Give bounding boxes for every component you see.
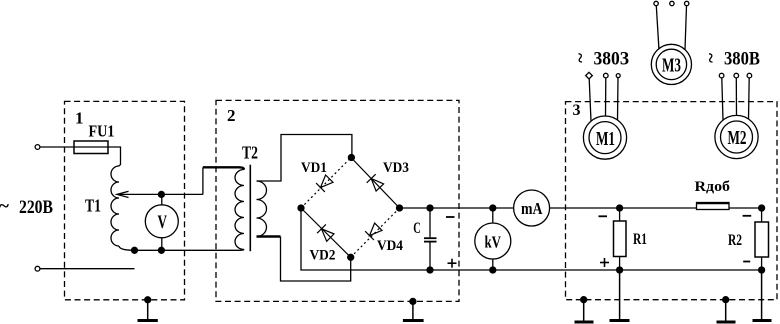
- terminal M1 left (diamond): [586, 72, 593, 79]
- svg-text:380В: 380В: [724, 48, 760, 69]
- svg-text:M2: M2: [728, 127, 747, 149]
- resistor R1: [614, 221, 627, 257]
- wire R1 to ground: [619, 270, 621, 320]
- wire kV top stub: [492, 208, 494, 223]
- wire tap to T2 jog: [117, 193, 203, 195]
- node junction dot box2 ground: [410, 298, 416, 304]
- wire T1 bottom to T2 primary bottom: [135, 249, 245, 252]
- node junction dot tap/voltmeter: [158, 191, 164, 197]
- block box 2 (dashed enclosure): [216, 100, 459, 301]
- svg-text:V: V: [158, 212, 168, 233]
- node bridge top: [348, 155, 354, 161]
- svg-text:kV: kV: [485, 233, 502, 252]
- node junction dot box3 ground left: [581, 297, 587, 303]
- terminal M2 middle: [734, 73, 739, 78]
- svg-text:C: C: [413, 220, 421, 237]
- tap arrow on T1: [117, 191, 129, 197]
- svg-text:~: ~: [569, 53, 590, 63]
- transformer T2 primary winding: [235, 170, 244, 250]
- ground below R1: [610, 319, 630, 322]
- svg-text:mA: mA: [521, 199, 543, 218]
- fuse FU1: [74, 141, 108, 154]
- label minus (top rail near C): [446, 216, 455, 218]
- svg-text:FU1: FU1: [89, 122, 115, 141]
- node junction dot box1 ground: [145, 297, 151, 303]
- transformer T2 secondary winding: [257, 181, 267, 237]
- ground below box 1: [147, 300, 149, 320]
- capacitor C: [429, 208, 431, 237]
- motor M2: [715, 115, 758, 158]
- svg-text:1: 1: [75, 109, 84, 128]
- wire terminal to fuse: [40, 146, 74, 148]
- svg-text:M3: M3: [662, 55, 681, 77]
- label minus (R2 top): [743, 215, 752, 217]
- svg-text:T1: T1: [85, 196, 101, 216]
- diode VD3: [367, 174, 384, 191]
- wire kV bottom stub: [492, 259, 494, 270]
- svg-text:VD3: VD3: [383, 160, 409, 176]
- wire fuse to T1 top: [108, 147, 121, 166]
- terminal M1 middle: [604, 73, 609, 78]
- motor M1: [583, 116, 626, 159]
- ground below box 3 right: [725, 300, 727, 322]
- svg-text:VD4: VD4: [377, 238, 403, 254]
- wire bridge edge VD4 (dashed): [351, 208, 400, 257]
- svg-text:Rдоб: Rдоб: [695, 179, 731, 195]
- diode VD2: [317, 224, 334, 241]
- wire bridge edge VD2: [301, 208, 351, 257]
- voltmeter kV: [475, 223, 511, 259]
- label minus (R2 bottom): [743, 261, 750, 263]
- node input terminal lower: [35, 266, 40, 271]
- wire M1 leads: [589, 79, 591, 121]
- label plus (R1 bottom): [600, 258, 609, 267]
- svg-text:VD2: VD2: [310, 248, 336, 264]
- wire voltmeter bottom stub: [161, 238, 163, 251]
- wire lower terminal stub: [40, 268, 135, 270]
- node junction dot box3 ground right: [723, 297, 729, 303]
- node bridge bottom: [348, 254, 354, 260]
- terminal M3 right: [685, 1, 689, 5]
- wire voltmeter top stub: [161, 194, 163, 204]
- diode VD4: [365, 223, 382, 240]
- wire bridge edge VD1 (dashed): [301, 158, 351, 209]
- ammeter mA: [514, 190, 550, 226]
- wire M2 leads: [722, 78, 723, 120]
- transformer T2 core: [249, 165, 251, 252]
- node junction dot T1 bottom: [132, 247, 138, 253]
- node input terminal upper (~220V line): [35, 145, 40, 150]
- motor M3: [651, 44, 691, 84]
- node bridge left: [298, 205, 304, 211]
- wire top rail mA to R1 and Rdob: [550, 207, 697, 209]
- svg-text:R2: R2: [728, 232, 742, 249]
- ground below box 3 left: [583, 300, 585, 322]
- wire tap jog up to T2 primary top (thick): [202, 167, 204, 194]
- label minus (R1 top): [599, 215, 608, 217]
- voltmeter V: [145, 205, 178, 238]
- resistor Rdob (series in top rail): [697, 207, 762, 209]
- block box 1 (dashed enclosure): [65, 101, 185, 299]
- wire bridge edge VD3: [351, 158, 400, 209]
- block box 3 (dashed enclosure): [566, 102, 778, 300]
- svg-text:3: 3: [573, 102, 581, 119]
- wire bottom rail (plus): [430, 269, 762, 271]
- wire T2 secondary bottom to bridge bottom node (thick start): [257, 235, 281, 237]
- svg-text:VD1: VD1: [301, 160, 327, 176]
- transformer T1 winding: [111, 166, 119, 246]
- ground below R2: [753, 319, 772, 322]
- label plus (bottom rail near C): [448, 259, 457, 268]
- terminal M2 right: [747, 73, 752, 78]
- svg-text:~: ~: [0, 196, 9, 217]
- wire T2 secondary top to bridge top node: [257, 135, 352, 182]
- wire M3 leads: [656, 6, 659, 49]
- svg-text:380З: 380З: [594, 48, 630, 69]
- wire T1 bottom tail: [119, 246, 135, 250]
- svg-text:2: 2: [227, 106, 236, 125]
- wire bridge left node down to bottom rail: [301, 208, 430, 270]
- resistor R2: [755, 222, 769, 257]
- terminal M1 right: [616, 74, 620, 78]
- diode VD1: [316, 175, 333, 192]
- svg-text:~: ~: [700, 53, 721, 63]
- wire R2 to ground: [761, 270, 763, 320]
- wire top rail (minus) bridge right node to mA: [400, 207, 514, 209]
- terminal M3 left: [654, 1, 658, 5]
- svg-text:R1: R1: [633, 231, 647, 248]
- svg-text:220В: 220В: [19, 197, 53, 218]
- svg-text:M1: M1: [596, 128, 615, 150]
- ground below box 2: [412, 301, 414, 319]
- svg-text:T2: T2: [242, 143, 258, 163]
- terminal M2 left: [719, 73, 724, 78]
- node junction dot voltmeter bottom: [158, 247, 164, 253]
- terminal M3 middle: [670, 1, 674, 5]
- node bridge right: [397, 205, 403, 211]
